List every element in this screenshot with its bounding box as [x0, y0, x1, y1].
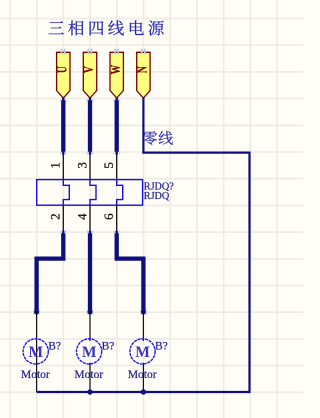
pin 6 (relay bottom pin): [116, 205, 118, 232]
svg-text:1: 1: [48, 162, 63, 169]
wire neutral: N connector down: [142, 98, 144, 153]
connector J3 phase W: [107, 49, 123, 98]
motor B? #3 pin line: [142, 312, 144, 392]
motor B? #2 pin line: [89, 312, 91, 392]
pin 2 (relay bottom pin): [62, 205, 64, 232]
svg-text:U: U: [54, 66, 70, 73]
junction dot motor 3 on neutral bus: [141, 389, 146, 394]
svg-text:3: 3: [74, 162, 89, 169]
svg-text:5: 5: [101, 162, 116, 169]
pin 4 (relay bottom pin): [89, 205, 91, 232]
junction dot above motor 1: [33, 309, 40, 315]
wire phase U vertical (connector to contact pin): [62, 97, 64, 101]
svg-text:Motor: Motor: [74, 369, 103, 381]
connector J2 phase V: [80, 49, 96, 98]
title text 三相四线电源 (three-phase four-wire supply): [49, 20, 164, 35]
svg-text:2: 2: [48, 213, 63, 220]
motor B? #3 circle (dashed): [130, 339, 155, 364]
net label 零线 (neutral line): [143, 131, 173, 145]
svg-text:B?: B?: [102, 341, 115, 353]
pin 1 (relay top pin): [62, 153, 64, 179]
svg-text:M: M: [135, 344, 150, 361]
pin 5 (relay top pin): [116, 153, 118, 179]
connector J4 neutral N: [134, 49, 150, 98]
motor B? #2 circle (dashed): [77, 339, 102, 364]
wire phase V to motor 2 (straight): [89, 231, 91, 234]
svg-text:W: W: [107, 65, 123, 75]
relay contactor RJDQ box outline: [37, 180, 143, 206]
motor B? #1 pin line: [36, 312, 38, 392]
svg-text:B?: B?: [48, 341, 61, 353]
svg-text:Motor: Motor: [21, 369, 50, 381]
svg-text:M: M: [82, 344, 97, 361]
pin 3 (relay top pin): [89, 153, 91, 179]
wire neutral right-side vertical drop: [248, 152, 250, 394]
wire neutral horizontal 零线 run: [142, 152, 249, 154]
relay contact 1 bump: [63, 180, 69, 206]
junction dot above motor 2: [87, 309, 94, 315]
connector J1 phase U: [54, 49, 70, 98]
wire neutral bottom bus: [37, 391, 250, 393]
motor B? #1 circle (dashed): [23, 339, 48, 364]
junction dot motor 2 on neutral bus: [87, 389, 92, 394]
svg-text:RJDQ: RJDQ: [144, 191, 170, 202]
svg-text:Motor: Motor: [128, 369, 157, 381]
relay contact 3 bump: [117, 180, 123, 206]
svg-text:6: 6: [101, 213, 116, 220]
svg-text:4: 4: [74, 213, 89, 220]
wire phase W vertical (connector to contact pin): [116, 97, 118, 101]
wire phase U to motor 1 (jog left): [62, 231, 64, 234]
wire phase V vertical (connector to contact pin): [89, 97, 91, 101]
svg-text:M: M: [28, 344, 43, 361]
wire phase W to motor 3 (jog right): [116, 231, 118, 234]
svg-text:N: N: [134, 66, 150, 73]
junction dot above motor 3: [140, 309, 147, 315]
relay contact 2 bump: [90, 180, 96, 206]
svg-text:V: V: [80, 66, 96, 73]
svg-text:B?: B?: [155, 341, 168, 353]
